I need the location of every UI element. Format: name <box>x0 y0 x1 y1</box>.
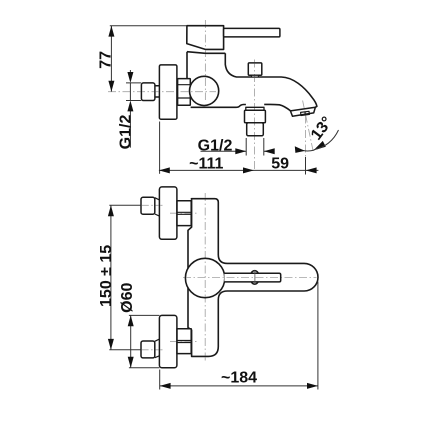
wall extension line (side) <box>159 122 161 174</box>
shower hose thread G1/2 <box>247 123 264 136</box>
cartridge circle O60 <box>185 258 224 297</box>
dim line ~111 / 59 <box>159 169 319 171</box>
dim 150+-15 line <box>110 205 112 349</box>
svg-text:G1/2: G1/2 <box>117 115 134 150</box>
upper hex nut facets <box>177 212 191 214</box>
inlet fitting G1/2 (side) <box>141 83 155 101</box>
dim 150 arrow down <box>108 339 114 350</box>
svg-text:150 ± 15: 150 ± 15 <box>98 245 115 307</box>
dimension 77 extension line top <box>110 25 187 27</box>
handle lever bar <box>224 28 280 37</box>
spout underside <box>191 104 291 110</box>
arrow at outlet axis <box>306 167 317 173</box>
arrow at wall <box>159 167 170 173</box>
G1/2 hose dim extension lines <box>246 138 264 156</box>
body vertical centerline <box>204 193 206 362</box>
dim ~184 line <box>160 385 318 387</box>
G1/2 hose arrow left <box>264 148 275 154</box>
lever pivot ellipse <box>250 271 259 285</box>
upper pipe centerline <box>141 204 163 206</box>
dim 184 arrow right <box>307 383 318 389</box>
dimension 77 arrow up <box>108 26 114 37</box>
aerator block <box>290 107 315 116</box>
dim O60 arrow down <box>128 357 134 368</box>
G1/2 hose dim line <box>201 150 274 152</box>
small G1/2 dim extension lines <box>126 83 141 101</box>
angle arrow left <box>295 146 305 153</box>
diverter knob stem <box>252 75 259 77</box>
upper fitting transition <box>155 198 160 216</box>
dimension 77 line <box>110 26 112 92</box>
lower nut centerline <box>170 341 199 343</box>
dim 150+-15 extension lines <box>109 205 141 349</box>
small G1/2 arrow up <box>127 101 133 112</box>
dim O60 line <box>130 315 132 367</box>
svg-text:77: 77 <box>98 51 115 69</box>
stub between fitting and flange <box>155 86 160 97</box>
angle arc <box>300 149 315 151</box>
dim ~184 extension lines <box>160 282 318 390</box>
outlet vertical reference <box>305 116 307 158</box>
arrow at hose axis <box>243 167 254 173</box>
lower hex nut facets <box>177 341 191 343</box>
water stream 13 deg line <box>303 101 314 152</box>
upper hex nut (front) <box>177 201 191 226</box>
small G1/2 dim line <box>129 70 131 148</box>
upper nut centerline <box>170 212 199 214</box>
G1/2 hose arrow right <box>235 148 246 154</box>
ball cartridge housing (side) <box>190 76 219 105</box>
dimension 77 arrow down <box>108 81 114 92</box>
angle arrow right <box>314 141 326 150</box>
wall flange escutcheon (side) <box>159 65 177 119</box>
lower fitting transition <box>155 339 160 358</box>
lower flange escutcheon (front) <box>159 315 177 367</box>
arm horizontal centerline <box>183 277 317 279</box>
handle cap <box>187 26 224 50</box>
shower hose nut <box>245 110 266 123</box>
lever bar (front) <box>224 273 280 282</box>
dim O60 arrow up <box>128 315 134 326</box>
svg-text:59: 59 <box>271 155 289 172</box>
svg-text:Ø60: Ø60 <box>119 282 136 312</box>
lower pipe centerline <box>141 349 163 351</box>
pivot axis tick <box>254 270 256 284</box>
handle centerline <box>204 20 206 100</box>
diverter knob <box>248 63 261 75</box>
centerline inlet axis <box>108 91 216 93</box>
shower hose collar <box>246 107 264 110</box>
faucet body and spout outline <box>187 52 317 107</box>
svg-text:G1/2: G1/2 <box>198 138 233 155</box>
dim 184 arrow left <box>160 383 171 389</box>
dim 150 arrow up <box>108 205 114 216</box>
body and arm (front) <box>188 199 318 357</box>
lower fitting G1/2 (front) <box>141 341 155 358</box>
upper flange escutcheon (front) <box>159 187 177 239</box>
dim O60 extension lines <box>129 315 160 367</box>
svg-text:~111: ~111 <box>189 155 223 172</box>
diverter knob centerline <box>254 60 256 171</box>
lower hex nut (front) <box>177 329 191 354</box>
hex nut (side) <box>178 79 191 106</box>
aerator notch <box>301 111 310 115</box>
upper fitting G1/2 (front) <box>141 197 155 214</box>
angle leader arc <box>314 130 339 150</box>
hex nut facets <box>178 85 191 98</box>
small G1/2 arrow down <box>127 72 133 83</box>
svg-text:~184: ~184 <box>221 370 257 387</box>
